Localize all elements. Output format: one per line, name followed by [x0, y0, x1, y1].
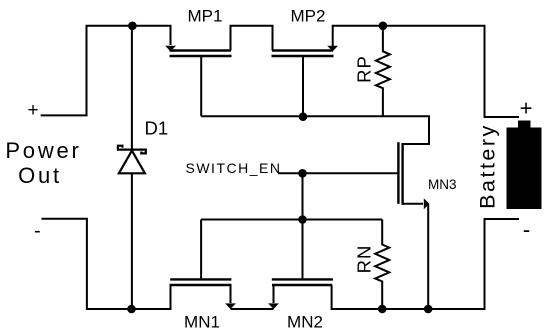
- arrow MP2 source: [327, 46, 338, 52]
- svg-text:-: -: [523, 217, 530, 242]
- transistor MP1 gate bar: [170, 55, 232, 57]
- svg-text:+: +: [27, 100, 38, 121]
- svg-text:RP: RP: [354, 55, 375, 83]
- transistor MN1 drain lead: [170, 285, 172, 309]
- node dot nmos gate line: [298, 215, 307, 224]
- wire MP2 gate down: [302, 57, 304, 117]
- resistor RN: [375, 220, 389, 310]
- svg-text:D1: D1: [145, 118, 169, 139]
- node dot battery top: [379, 22, 388, 31]
- node dot MP2 gate: [299, 112, 308, 121]
- wire nmos gate line: [201, 219, 382, 221]
- transistor MN2 gate bar: [272, 278, 333, 280]
- arrow MP1 source: [165, 46, 176, 52]
- wire SWITCH_EN to MN3 gate: [278, 172, 398, 174]
- arrow MN2 source: [268, 303, 279, 309]
- svg-text:Power: Power: [5, 138, 81, 163]
- wire pmos gate line to MN3 drain: [201, 116, 429, 144]
- wire power out plus lead: [41, 26, 133, 116]
- wire MN1 source MN2 source bridge: [231, 308, 274, 310]
- wire SWITCH_EN down to nmos gate line: [302, 173, 304, 219]
- wire top rail to MP1 source: [132, 26, 170, 45]
- arrow MN3 source: [424, 198, 430, 209]
- diode D1 zener cathode bar: [118, 146, 146, 154]
- wire MP1 gate down: [200, 57, 202, 117]
- svg-text:MN2: MN2: [287, 313, 323, 332]
- transistor MN3 channel: [401, 143, 403, 205]
- wire power out minus lead: [42, 219, 132, 309]
- svg-text:MN1: MN1: [184, 313, 220, 332]
- wire MN1 gate down: [200, 220, 202, 279]
- transistor MN1 channel: [170, 284, 232, 286]
- svg-text:MN3: MN3: [428, 177, 457, 192]
- diode D1 wires: [131, 26, 133, 150]
- wire MN2 drain to bottom rail: [332, 219, 519, 309]
- node dot SWITCH_EN: [298, 169, 307, 178]
- svg-text:MP2: MP2: [291, 7, 326, 26]
- transistor MN1 gate bar: [170, 278, 231, 280]
- transistor MN2 source lead: [273, 285, 275, 303]
- transistor MN1 source lead: [230, 285, 232, 303]
- transistor MN3 source lead: [403, 203, 423, 205]
- wire bottom rail to MN1 drain: [132, 285, 171, 309]
- transistor MP2 channel: [272, 49, 333, 51]
- svg-text:MP1: MP1: [188, 7, 223, 26]
- arrow MN1 source: [225, 303, 236, 309]
- diode D1 anode triangle: [119, 151, 145, 174]
- wire MN3 source down to rail: [427, 204, 429, 309]
- wire MP1 drain to MP2 drain bridge: [231, 26, 273, 51]
- svg-text:RN: RN: [354, 245, 375, 274]
- svg-text:+: +: [520, 96, 533, 121]
- svg-text:Battery: Battery: [476, 123, 500, 209]
- transistor MP1 channel: [170, 49, 232, 51]
- battery nub: [518, 121, 531, 129]
- wire MN2 gate down: [302, 220, 304, 279]
- svg-text:Out: Out: [18, 163, 62, 188]
- battery body: [507, 128, 542, 210]
- resistor RP: [376, 26, 390, 117]
- node dot RN bottom: [378, 305, 387, 314]
- transistor MN3 gate bar: [397, 142, 399, 204]
- node dot power top: [128, 22, 137, 31]
- node dot D1 bottom: [127, 305, 136, 314]
- transistor MN2 channel: [272, 284, 332, 286]
- wire MP2 source to battery top rail: [333, 26, 519, 117]
- svg-text:SWITCH_EN: SWITCH_EN: [186, 160, 282, 176]
- node dot MN3 source bottom: [424, 305, 433, 314]
- svg-text:-: -: [34, 220, 41, 242]
- transistor MP2 gate bar: [272, 55, 334, 57]
